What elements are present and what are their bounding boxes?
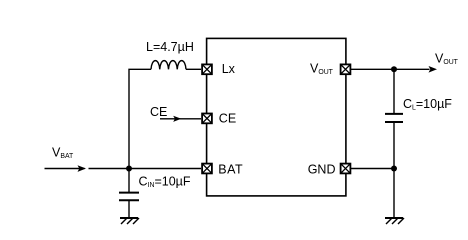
svg-text:L=4.7µH: L=4.7µH (146, 40, 194, 54)
wire: VBAT input to node A (45, 168, 85, 170)
wire: node A to BAT pin (129, 168, 201, 170)
wire: CIN to ground (128, 200, 130, 218)
pin CE box (202, 114, 212, 124)
svg-text:BAT: BAT (218, 163, 243, 177)
wire: CE signal to CE pin (160, 118, 201, 120)
wire: GND pin to rail (351, 168, 394, 170)
node A junction dot (126, 166, 132, 172)
node C junction dot (391, 166, 397, 172)
IC U1 body (207, 38, 346, 196)
wire: inductor to Lx pin (186, 68, 201, 70)
inductor L1 L=4.7uH (151, 61, 186, 70)
svg-text:CIN=10µF: CIN=10µF (139, 175, 191, 190)
pin VOUT box (341, 64, 351, 74)
ground (right) (385, 218, 404, 224)
pin GND box (341, 164, 351, 174)
capacitor CL=10uF (385, 114, 403, 122)
wire: VOUT pin to output (351, 68, 430, 70)
wire: node A up to inductor (129, 69, 151, 168)
wire: node B down to CL (393, 69, 395, 114)
svg-text:Lx: Lx (222, 62, 236, 76)
arrowhead on VOUT wire (429, 66, 438, 73)
pin Lx box (202, 64, 212, 74)
pin BAT box (202, 164, 212, 174)
ground (left) (120, 218, 139, 224)
wire: CL to ground rail (393, 122, 395, 218)
svg-text:CL=10µF: CL=10µF (403, 97, 452, 112)
capacitor CIN=10uF (119, 193, 139, 201)
arrowhead on CE wire (173, 116, 181, 122)
wire: node A down to CIN (128, 169, 130, 193)
svg-text:GND: GND (308, 163, 336, 177)
arrowhead on VBAT wire (78, 165, 87, 172)
svg-text:CE: CE (219, 112, 236, 126)
node B junction dot (391, 66, 397, 72)
svg-text:CE: CE (150, 105, 167, 119)
